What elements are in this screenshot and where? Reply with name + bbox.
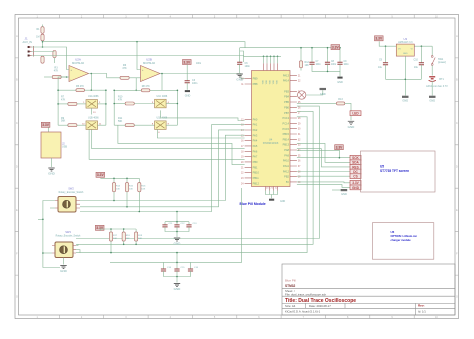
svg-text:STM32: STM32 — [285, 284, 296, 288]
resistor R9 gain row2 stage1 — [68, 124, 77, 127]
wire bundle MCU to TFT labels — [297, 157, 350, 159]
resistor R10 gain row1 stage2 — [125, 102, 134, 105]
wire J1 pin1 to U2A + input — [32, 47, 70, 70]
resistor R7 gain row1 stage1 — [68, 102, 77, 105]
wire top rail (signal to stage 2) — [43, 42, 246, 48]
svg-text:PB10: PB10 — [253, 171, 260, 175]
svg-text:PB9: PB9 — [253, 77, 258, 81]
ground right of MCU bottom — [332, 189, 341, 191]
svg-text:PA11: PA11 — [283, 164, 290, 168]
resistor R15 pull-up — [125, 183, 128, 192]
svg-text:Size: A4: Size: A4 — [285, 304, 296, 308]
wire J1 pin3 long to right — [32, 56, 244, 63]
svg-text:10K: 10K — [305, 64, 310, 67]
svg-text:56K: 56K — [61, 120, 66, 123]
ladder1 bottoms to signal lines — [113, 192, 115, 201]
resistor R17 pull-up — [109, 232, 112, 241]
svg-text:PB7: PB7 — [284, 111, 289, 115]
svg-text:3.3V: 3.3V — [375, 37, 383, 41]
svg-text:STM32F103C8: STM32F103C8 — [263, 143, 279, 145]
wire U2A output to feedback rail — [90, 74, 92, 91]
svg-text:10K: 10K — [116, 188, 120, 190]
resistor R12 boot — [299, 61, 302, 68]
resistor R4 below pin3 — [41, 56, 44, 63]
svg-text:100n: 100n — [192, 82, 198, 85]
svg-text:VO: VO — [398, 49, 401, 51]
resistor R11 gain row2 stage2 — [125, 124, 134, 127]
cluster2 ground — [164, 271, 191, 277]
resistor R18 pull-up — [122, 232, 125, 241]
svg-text:PB11: PB11 — [253, 176, 260, 180]
svg-text:U1A 4066: U1A 4066 — [88, 95, 99, 98]
svg-text:10K: 10K — [113, 238, 117, 240]
svg-text:GND: GND — [403, 53, 408, 55]
capacitor C8 decoupling — [327, 48, 329, 63]
svg-text:R5 47K: R5 47K — [76, 85, 84, 88]
svg-text:Id: 1/1: Id: 1/1 — [418, 309, 426, 313]
svg-text:Date: 2020-08-17: Date: 2020-08-17 — [309, 304, 331, 308]
wire cluster2 rail to MCU bottom area — [191, 188, 242, 262]
wire U2B - node to feedback rail — [135, 78, 137, 91]
wire SW3 outputs long around bottom up to MCU — [76, 106, 319, 238]
capacitor C12 — [174, 225, 179, 227]
MCU top pin stubs — [264, 63, 278, 70]
svg-text:100n: 100n — [344, 64, 350, 66]
resistor R5 feedback stage1 — [76, 89, 85, 92]
svg-text:OPTION: Lithium-ion: OPTION: Lithium-ion — [391, 234, 418, 238]
svg-text:GND: GND — [348, 125, 356, 129]
svg-text:VDD: VDD — [270, 79, 272, 84]
capacitor C10 regulator right — [420, 46, 422, 62]
svg-text:VDD: VDD — [263, 79, 265, 84]
ground below MCU — [269, 199, 274, 201]
wire drop to op-amp U2B + input — [137, 42, 141, 70]
global label SDA — [350, 160, 361, 165]
svg-text:U1B 4066: U1B 4066 — [88, 117, 99, 120]
svg-text:PB3: PB3 — [284, 89, 289, 93]
svg-text:PB0: PB0 — [253, 160, 258, 164]
MCU U4 STM32F103 (Blue Pill) — [252, 71, 291, 187]
svg-text:Blue Pill: Blue Pill — [285, 279, 296, 283]
svg-text:10K: 10K — [126, 238, 130, 240]
svg-text:GND: GND — [320, 92, 326, 96]
wire U2B output to feedback rail — [161, 74, 163, 91]
svg-text:AMS1117-3.3: AMS1117-3.3 — [398, 41, 413, 44]
svg-text:GND: GND — [236, 78, 244, 82]
global label VCC — [350, 180, 361, 185]
wire attenuator column to pin1 — [42, 25, 44, 27]
power flag 3.3V ladder1 — [96, 172, 105, 177]
svg-text:10u: 10u — [378, 66, 383, 69]
wire regulator top rail — [379, 41, 396, 46]
analog switch U1D 4066 row2 stage2 — [155, 121, 167, 129]
svg-text:1M: 1M — [36, 36, 39, 39]
svg-text:C10: C10 — [414, 59, 419, 62]
MCU bottom pin stubs — [266, 187, 278, 191]
svg-text:VDD: VDD — [266, 79, 268, 84]
wire 3.3V rail over MCU — [240, 47, 340, 49]
capacitor C9 regulator left — [385, 46, 387, 62]
svg-text:PA10: PA10 — [283, 159, 290, 163]
wire stage2 sw1 control to MCU — [161, 110, 245, 120]
ladder2 bottoms to signal lines — [110, 241, 112, 253]
capacitor C11 — [165, 221, 189, 223]
capacitor C3 op-amp decoupling — [186, 65, 188, 81]
regulator U3 AMS1117 — [396, 44, 414, 56]
svg-text:G: G — [16, 296, 18, 299]
wire switch control stage1 row2 — [92, 129, 245, 148]
feedback top rail stage1 — [58, 89, 76, 91]
svg-text:Blue Pill Module: Blue Pill Module — [240, 202, 266, 206]
resistor R8 feedback stage2 — [141, 89, 150, 92]
svg-text:PA13: PA13 — [283, 73, 290, 77]
svg-text:ST7735 TFT screen: ST7735 TFT screen — [380, 169, 409, 173]
svg-text:3.3V: 3.3V — [352, 181, 359, 185]
svg-text:PA2: PA2 — [253, 128, 258, 132]
svg-text:U4: U4 — [269, 138, 273, 142]
wire U2B output long to MCU — [160, 74, 245, 79]
resistor R6 between stages — [120, 76, 129, 79]
wire PA? to backlight resistor — [297, 102, 337, 104]
svg-text:PA3: PA3 — [253, 133, 258, 137]
wire caps to ground bus — [312, 64, 340, 71]
svg-text:USB: USB — [62, 146, 67, 149]
svg-text:PA6: PA6 — [253, 149, 258, 153]
op-amp U2A — [69, 66, 89, 82]
analog switch U1A 4066 row1 stage1 — [86, 100, 98, 109]
ground regulator — [402, 96, 409, 98]
power flag 3.3V top right of MCU — [331, 45, 340, 50]
svg-text:10K: 10K — [129, 188, 133, 190]
cluster1 ground — [165, 227, 189, 232]
wire R6 to U2B - input — [129, 77, 140, 79]
svg-text:100n: 100n — [316, 64, 322, 66]
capacitor C16 — [188, 269, 193, 271]
wire MCU pin down-corner to SDA — [297, 143, 350, 162]
svg-text:MCP6L92: MCP6L92 — [72, 61, 84, 65]
svg-text:SCK: SCK — [352, 156, 359, 160]
svg-text:LiPo/Li-ion bat. 3.7V: LiPo/Li-ion bat. 3.7V — [426, 85, 448, 88]
global label SCK — [350, 155, 361, 160]
svg-text:5V: 5V — [286, 180, 289, 184]
svg-text:3.3V: 3.3V — [97, 173, 105, 177]
svg-text:PB14: PB14 — [283, 137, 290, 141]
cluster2 top rail — [110, 261, 191, 263]
power switch SW1 — [431, 46, 433, 55]
wire U2A output — [89, 74, 121, 78]
resistor R19 pull-up — [135, 232, 138, 241]
svg-text:GND: GND — [337, 81, 343, 84]
svg-text:U6: U6 — [391, 230, 395, 234]
svg-text:C: C — [16, 122, 18, 125]
svg-text:PC14: PC14 — [283, 121, 290, 125]
wire U2A feedback right column — [105, 90, 107, 125]
svg-text:Rotary_Encoder_Switch: Rotary_Encoder_Switch — [59, 191, 84, 194]
svg-text:10K: 10K — [141, 188, 145, 190]
svg-text:PB13: PB13 — [283, 143, 290, 147]
svg-text:GND: GND — [60, 269, 68, 273]
capacitor C15 — [174, 269, 179, 271]
svg-text:GND: GND — [174, 287, 182, 291]
svg-text:AUX_IN: AUX_IN — [23, 40, 32, 44]
svg-text:47K: 47K — [61, 98, 66, 101]
svg-text:GND: GND — [402, 98, 408, 102]
ground decoupling caps — [337, 77, 342, 79]
ground C6 — [237, 74, 243, 77]
wire switch control stage2 row2 — [157, 129, 244, 138]
svg-text:RES: RES — [352, 165, 359, 169]
svg-text:3.3V: 3.3V — [42, 123, 50, 127]
svg-text:PB2: PB2 — [284, 175, 289, 179]
wire MCU bottom pins to ground bar — [266, 191, 278, 195]
battery BT1 — [431, 65, 433, 75]
regulator ground bus — [386, 78, 422, 80]
svg-text:PB5: PB5 — [284, 100, 289, 104]
TFT screen box U5 — [361, 151, 436, 192]
ground right area — [350, 116, 352, 121]
svg-text:PB4: PB4 — [284, 95, 289, 99]
ground op-amp decoupling — [185, 90, 190, 92]
capacitor C14 — [161, 269, 166, 271]
svg-text:SW3: SW3 — [65, 230, 71, 234]
svg-text:47K: 47K — [122, 67, 127, 70]
wire switch control stage1 row1 — [89, 129, 245, 159]
resistor R16 pull-up — [138, 183, 141, 192]
svg-text:PA14: PA14 — [283, 79, 290, 83]
svg-text:100n: 100n — [331, 64, 337, 66]
wire MCU pin down-corner to RES — [297, 149, 350, 167]
svg-text:(power): (power) — [438, 61, 446, 64]
ladder2 top rail — [100, 229, 136, 231]
svg-text:PA8: PA8 — [284, 148, 289, 152]
svg-text:GND: GND — [48, 172, 56, 176]
resistor R2 input attenuator (bottom) — [41, 34, 44, 41]
svg-text:GND: GND — [341, 192, 347, 196]
wire switch control stage1 row1 stub — [91, 108, 93, 114]
svg-text:56K: 56K — [118, 120, 123, 123]
MCU right pin stubs — [290, 75, 297, 182]
capacitor C9b decoupling — [339, 48, 341, 63]
capacitor C7 decoupling — [311, 48, 313, 63]
wire SW2/SW3 left vertical bus — [43, 201, 60, 268]
svg-text:LED: LED — [352, 112, 359, 116]
svg-text:DC: DC — [353, 170, 358, 174]
title block frame — [282, 264, 455, 315]
resistor R1 input attenuator (top) — [41, 27, 44, 34]
ground SW3 — [63, 258, 65, 265]
svg-text:47K: 47K — [118, 98, 123, 101]
capacitor C6 decoupling — [239, 48, 241, 63]
wire test to ground — [306, 90, 323, 95]
power flag 3.3V J2 — [41, 122, 50, 127]
svg-text:3.3V: 3.3V — [183, 60, 191, 64]
analog switch U1C 4066 row1 stage2 — [155, 99, 167, 108]
svg-text:R13: R13 — [338, 98, 343, 101]
svg-text:GND: GND — [352, 186, 360, 190]
svg-text:PA12: PA12 — [283, 169, 290, 173]
svg-text:PB1: PB1 — [253, 165, 258, 169]
svg-text:PA7: PA7 — [253, 155, 258, 159]
svg-text:PC15: PC15 — [283, 127, 290, 131]
svg-text:3.3V: 3.3V — [336, 146, 344, 150]
wire U2A feedback left column — [58, 77, 67, 125]
svg-text:U1C 4066: U1C 4066 — [157, 95, 168, 98]
wire TFT power rows — [297, 150, 340, 157]
connector J1 (channel input) — [29, 47, 32, 56]
svg-text:PC13: PC13 — [283, 116, 290, 120]
resistor R14 pull-up — [112, 183, 115, 192]
svg-text:SW2: SW2 — [68, 187, 74, 191]
svg-text:U2A: U2A — [75, 58, 81, 62]
power flag 3.3V TFT — [335, 145, 344, 150]
svg-text:PA1: PA1 — [253, 123, 258, 127]
feedback top rail stage2 — [114, 89, 141, 91]
ground test signal — [320, 88, 327, 90]
svg-text:SDA: SDA — [352, 161, 359, 165]
svg-text:D: D — [456, 165, 458, 168]
svg-text:BT1: BT1 — [439, 78, 444, 81]
svg-text:MCP6L92: MCP6L92 — [143, 61, 155, 65]
svg-text:100n: 100n — [196, 63, 202, 65]
charger option box U6 — [372, 223, 433, 260]
svg-text:GND: GND — [185, 94, 191, 97]
svg-text:U2B: U2B — [146, 58, 152, 62]
svg-text:10K: 10K — [138, 238, 142, 240]
svg-text:PA0: PA0 — [253, 117, 258, 121]
wire U2B feedback right column — [176, 90, 178, 125]
wire J1 pin2 to C1 — [32, 51, 55, 53]
svg-text:PB8: PB8 — [253, 82, 258, 86]
power flag 3.3V regulator output — [375, 36, 384, 41]
svg-text:GND: GND — [174, 242, 182, 246]
ground battery — [429, 96, 436, 98]
svg-text:Rotary_Encoder_Switch: Rotary_Encoder_Switch — [56, 235, 81, 238]
svg-text:PA5: PA5 — [253, 144, 258, 148]
global label DC — [350, 169, 361, 174]
power flag 3.3V op-amp supply — [183, 60, 192, 65]
wire MCU top pins rail — [244, 55, 282, 57]
resistor R3 into U2A - input — [52, 75, 61, 78]
svg-text:VDD: VDD — [273, 79, 275, 84]
svg-text:CS: CS — [353, 175, 357, 179]
ground J2 — [51, 158, 53, 167]
power flag 3.3V ladder2 — [95, 225, 104, 230]
wire stage2 column down to MCU — [118, 125, 245, 164]
svg-text:PA9: PA9 — [284, 153, 289, 157]
svg-text:10u: 10u — [414, 66, 419, 69]
svg-text:Rev:: Rev: — [418, 304, 425, 308]
svg-text:100n: 100n — [245, 65, 251, 68]
svg-text:GND: GND — [429, 98, 435, 102]
svg-text:R8 47K: R8 47K — [142, 85, 150, 88]
svg-text:3.3V: 3.3V — [332, 46, 340, 50]
svg-text:PB12: PB12 — [253, 181, 260, 185]
global label GND — [350, 185, 361, 190]
op-amp U2B — [141, 66, 161, 82]
svg-text:VDD: VDD — [277, 79, 279, 84]
resistor R13 backlight — [336, 102, 344, 105]
wire SW2 outputs to MCU — [80, 135, 245, 200]
svg-text:47K: 47K — [54, 70, 59, 73]
capacitor C1 coupling — [53, 51, 56, 58]
svg-text:GND: GND — [280, 201, 285, 203]
capacitor C13 — [186, 225, 191, 227]
svg-text:PB6: PB6 — [284, 105, 289, 109]
svg-text:C: C — [456, 122, 458, 125]
svg-text:KiCad E.D.A. kicad (5.1.6)-1: KiCad E.D.A. kicad (5.1.6)-1 — [285, 309, 321, 313]
ladder1 top rail — [101, 177, 140, 179]
svg-text:G: G — [456, 296, 458, 299]
analog switch U1B 4066 row2 stage1 — [86, 121, 98, 129]
svg-text:File: dual_trace_oscilloscope.: File: dual_trace_oscilloscope.sch — [285, 292, 326, 296]
wire U2B feedback left column — [113, 90, 115, 125]
svg-text:J1: J1 — [25, 37, 29, 41]
global label LED — [350, 111, 361, 116]
svg-text:D: D — [16, 165, 18, 168]
svg-text:PB15: PB15 — [283, 132, 290, 136]
global label CS — [350, 174, 361, 179]
test signal connector P1 (circle) — [298, 91, 306, 99]
svg-text:charger module: charger module — [391, 238, 412, 242]
global label RES — [350, 165, 361, 170]
MCU left pin stubs — [245, 79, 252, 184]
svg-text:PA4: PA4 — [253, 139, 258, 143]
svg-text:U5: U5 — [380, 164, 384, 168]
connector J2 — [41, 132, 61, 158]
